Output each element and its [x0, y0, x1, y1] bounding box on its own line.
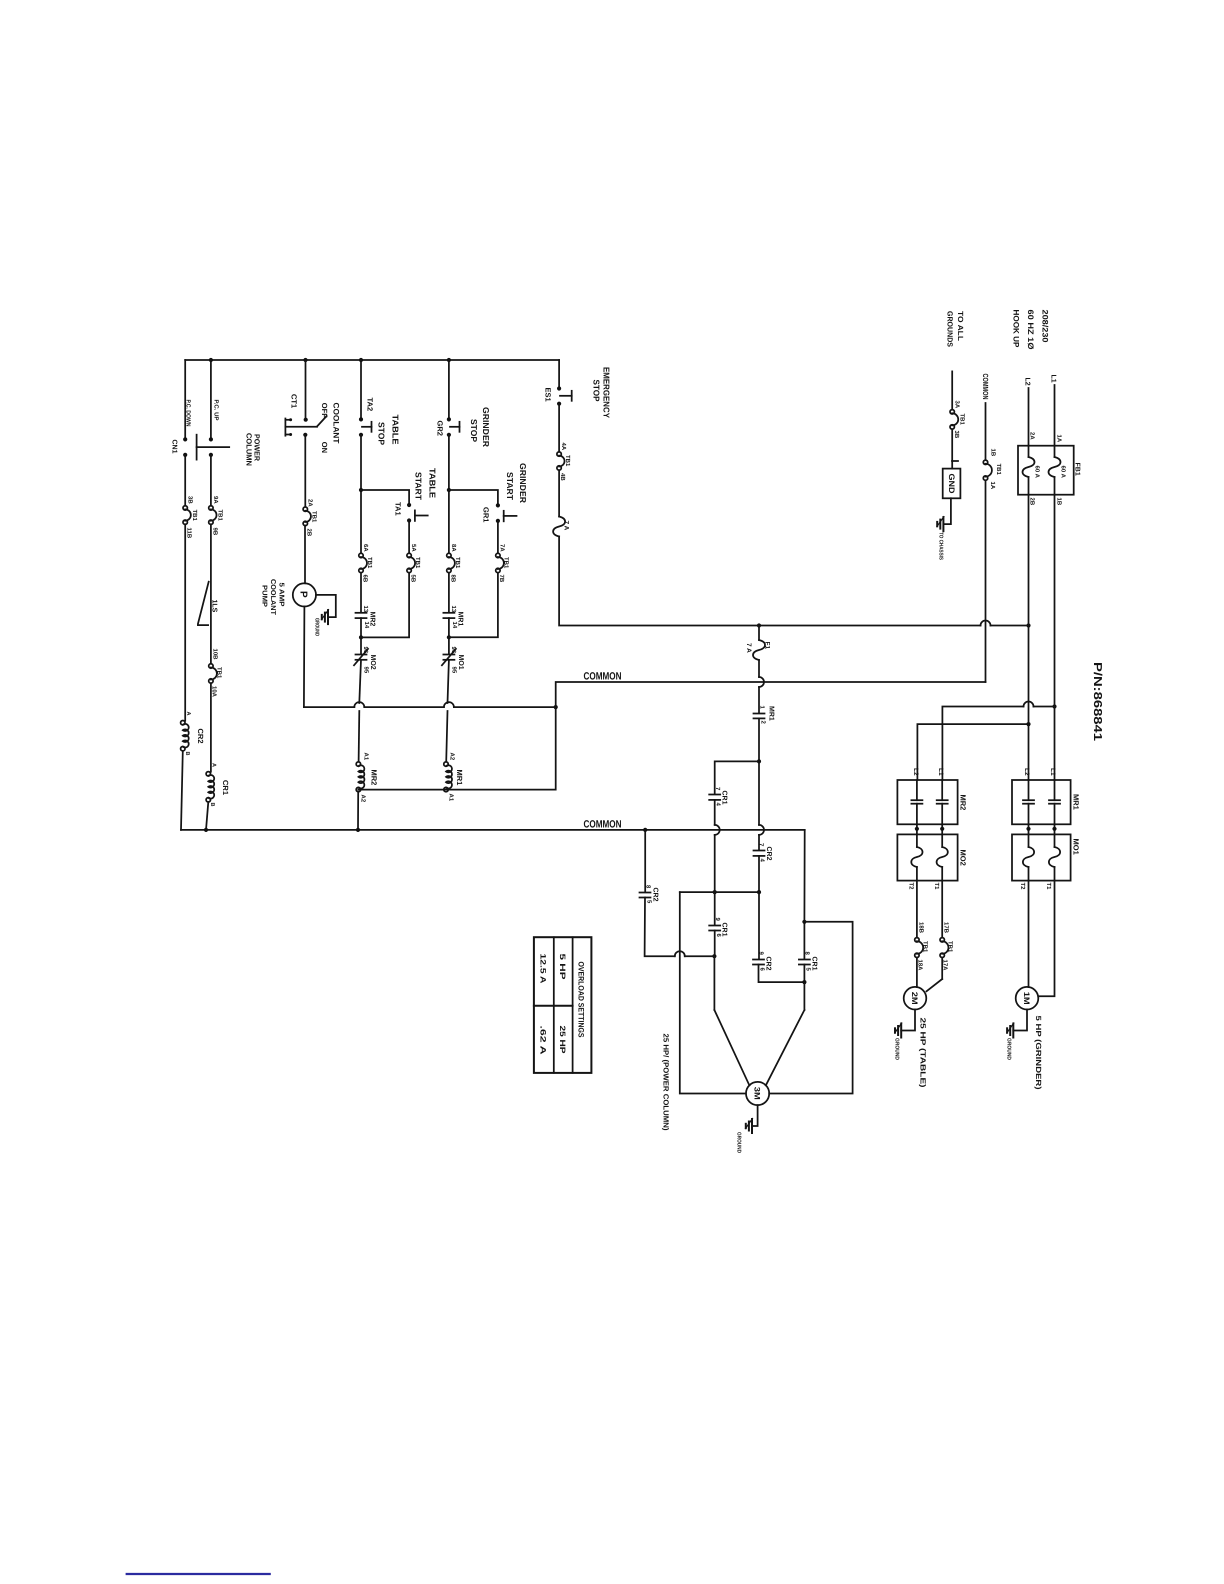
- svg-text:60 HZ 1Ø: 60 HZ 1Ø: [1026, 310, 1035, 350]
- svg-text:7B: 7B: [498, 575, 505, 583]
- svg-text:TB1: TB1: [311, 511, 318, 523]
- wire MR2-MO2 links: [915, 824, 945, 834]
- svg-text:TA2: TA2: [366, 398, 375, 412]
- svg-text:PUMP: PUMP: [261, 585, 268, 607]
- svg-text:17A: 17A: [942, 960, 949, 972]
- svg-text:17B: 17B: [943, 922, 950, 934]
- svg-text:CR1: CR1: [221, 780, 230, 795]
- text GRINDER START: [505, 463, 528, 503]
- wire 3M right loop: [769, 922, 852, 1094]
- contact MR2 13-14: [356, 606, 376, 629]
- svg-text:COOLANT: COOLANT: [269, 579, 276, 616]
- wire TA1 branch bottom: [361, 573, 409, 638]
- svg-text:1A: 1A: [989, 482, 996, 490]
- wire L1 to contactor: [1049, 495, 1057, 780]
- svg-text:CR1: CR1: [811, 957, 818, 971]
- svg-text:STOP: STOP: [469, 419, 479, 442]
- svg-text:2M: 2M: [910, 992, 919, 1005]
- terminal TB1 6A-6B: [359, 544, 373, 583]
- svg-text:B: B: [184, 752, 190, 756]
- terminal TB1 8A-8B: [447, 544, 461, 583]
- wire rung4 to MR2 contact: [360, 573, 362, 613]
- text TO CHASSIS: [938, 532, 944, 560]
- svg-text:12.5 A: 12.5 A: [539, 954, 548, 984]
- svg-text:COMMON: COMMON: [584, 819, 622, 831]
- svg-text:L2: L2: [912, 768, 919, 776]
- svg-text:TB1: TB1: [191, 510, 198, 522]
- svg-text:GROUNDS: GROUNDS: [946, 311, 955, 347]
- wire 2M T2: [916, 881, 918, 988]
- node 2A: [1029, 432, 1036, 440]
- contact MO1 95-96: [442, 647, 464, 674]
- svg-text:CT1: CT1: [290, 394, 299, 408]
- svg-text:STOP: STOP: [592, 380, 602, 402]
- svg-text:GRINDER: GRINDER: [481, 407, 491, 447]
- wire TA1 branch top: [361, 490, 409, 503]
- pushbutton GR1: [482, 503, 517, 523]
- svg-text:2: 2: [760, 721, 767, 725]
- contact CR1 7-4: [709, 787, 727, 807]
- svg-text:4A: 4A: [560, 443, 567, 451]
- wire common2: [181, 828, 805, 832]
- svg-text:13: 13: [362, 606, 369, 613]
- wire GR1 branch mid: [497, 521, 499, 554]
- wire line A mid: [714, 892, 716, 924]
- svg-text:HOOK UP: HOOK UP: [1012, 310, 1021, 349]
- contact MR1 1-2: [754, 706, 775, 725]
- svg-text:T2: T2: [908, 883, 915, 891]
- blue mark: [127, 1573, 270, 1575]
- svg-text:.62 A: .62 A: [539, 1026, 548, 1056]
- pushbutton TA1: [394, 502, 428, 523]
- text TABLE STOP: [377, 415, 401, 446]
- svg-text:L2: L2: [1024, 378, 1031, 386]
- svg-text:6: 6: [759, 968, 766, 972]
- contact CR2 7-4: [754, 843, 773, 863]
- wire line C: [680, 892, 746, 1093]
- svg-text:CN1: CN1: [171, 440, 178, 454]
- svg-text:COLUMN: COLUMN: [245, 433, 254, 466]
- wire TA1 branch mid: [408, 521, 410, 554]
- svg-text:TB1: TB1: [922, 941, 929, 953]
- svg-text:P/N:868841: P/N:868841: [1091, 662, 1103, 742]
- svg-text:L1: L1: [1049, 768, 1056, 776]
- svg-text:25 HP/ (POWER COLUMN): 25 HP/ (POWER COLUMN): [662, 1034, 671, 1132]
- node T2 MO1: [1019, 883, 1026, 891]
- motor 3M power column: [746, 1082, 769, 1105]
- svg-text:5: 5: [805, 968, 812, 972]
- text P.C. UP: [213, 400, 220, 421]
- wire top bus: [185, 358, 559, 362]
- svg-text:EMERGENCY: EMERGENCY: [602, 367, 612, 418]
- svg-text:A: A: [211, 763, 217, 767]
- wire rung1 upper: [184, 360, 186, 439]
- svg-text:6A: 6A: [362, 544, 369, 552]
- svg-text:2A: 2A: [307, 499, 314, 507]
- wire line A cross common2: [713, 800, 720, 894]
- svg-text:7A: 7A: [499, 544, 506, 552]
- svg-text:F1: F1: [764, 642, 771, 650]
- svg-text:5A: 5A: [410, 544, 417, 552]
- svg-text:GRINDER: GRINDER: [518, 463, 528, 503]
- svg-text:2A: 2A: [1029, 432, 1036, 440]
- wire L2 input: [1024, 378, 1031, 446]
- coil CR1: [206, 763, 230, 807]
- contact CR2 9-6: [753, 952, 772, 972]
- wire rung5 to MR1 coil: [446, 660, 449, 762]
- svg-text:TB1: TB1: [414, 557, 421, 569]
- fuse block FB1: [1018, 446, 1081, 495]
- svg-text:TO CHASSIS: TO CHASSIS: [938, 532, 944, 560]
- svg-text:GR1: GR1: [482, 507, 491, 522]
- contactor MR1: [1012, 780, 1081, 824]
- svg-text:GROUND: GROUND: [1006, 1038, 1012, 1060]
- wire line D lower: [802, 965, 806, 1011]
- svg-text:B: B: [209, 803, 215, 807]
- node T1 MO1: [1045, 883, 1052, 891]
- motor 2M: [904, 987, 927, 1010]
- svg-text:25 HP: 25 HP: [558, 1026, 567, 1054]
- svg-text:2B: 2B: [306, 529, 313, 537]
- svg-text:L2: L2: [1023, 768, 1030, 776]
- wire rung3 mid: [304, 435, 306, 507]
- coil MR1: [444, 753, 464, 802]
- svg-text:95: 95: [363, 667, 370, 674]
- terminal TB1 3A-3B: [950, 401, 966, 439]
- node 1B: [1056, 498, 1063, 506]
- terminal TB1 7A-7B: [496, 544, 510, 583]
- wire rung6 to fuse: [558, 470, 560, 516]
- terminal TB1 9A-9B: [209, 496, 224, 536]
- chassis ground: [937, 517, 944, 532]
- svg-text:TB1: TB1: [366, 557, 373, 569]
- wire line B cross common2: [759, 761, 764, 849]
- wire CR2 branch lower: [645, 898, 715, 957]
- svg-text:11B: 11B: [186, 528, 193, 539]
- svg-text:CR2: CR2: [196, 729, 205, 744]
- wire rung3 to pump: [304, 526, 306, 584]
- svg-text:5 HP: 5 HP: [558, 954, 567, 980]
- svg-text:L1: L1: [1050, 375, 1057, 383]
- svg-text:START: START: [505, 472, 515, 501]
- wire GR1 branch bottom: [449, 573, 498, 638]
- svg-text:MR1: MR1: [1072, 794, 1081, 810]
- svg-text:P.C. UP: P.C. UP: [213, 400, 220, 421]
- wire rung1 lower: [184, 524, 186, 720]
- svg-text:TB1: TB1: [959, 414, 966, 426]
- svg-text:MO1: MO1: [1072, 839, 1081, 855]
- wire 2M T1: [927, 881, 943, 992]
- wire 1M T1: [1038, 881, 1054, 997]
- wire rung5 MO1 segment: [447, 618, 451, 654]
- wire 3M ground: [752, 1105, 758, 1126]
- wire rung4 upper: [360, 360, 362, 419]
- svg-text:GR2: GR2: [436, 421, 445, 436]
- text 25 HP TABLE: [919, 1018, 928, 1089]
- svg-text:A1: A1: [363, 753, 370, 761]
- svg-text:TB1: TB1: [564, 455, 571, 467]
- svg-text:TABLE: TABLE: [391, 415, 401, 445]
- svg-text:ES1: ES1: [544, 388, 553, 402]
- svg-text:A2: A2: [360, 795, 367, 803]
- wire line D upper: [802, 830, 806, 959]
- svg-text:95: 95: [451, 667, 458, 674]
- svg-text:208/230: 208/230: [1041, 310, 1050, 344]
- contact MO2 95-96: [354, 647, 376, 674]
- wire line B mid: [757, 856, 761, 959]
- wire rung5 upper: [448, 360, 450, 419]
- svg-text:P.C. DOWN: P.C. DOWN: [185, 400, 192, 427]
- wire emergency line: [559, 537, 1028, 628]
- svg-text:START: START: [414, 472, 424, 501]
- wire common1 right: [554, 682, 986, 709]
- contact CR1 9-6: [709, 918, 727, 938]
- svg-text:6B: 6B: [362, 575, 369, 583]
- svg-text:COOLANT: COOLANT: [332, 403, 341, 444]
- terminal TB1 17B-17A: [940, 922, 954, 971]
- svg-text:TO ALL: TO ALL: [956, 311, 965, 341]
- svg-text:CR1: CR1: [721, 791, 728, 805]
- svg-text:14: 14: [363, 622, 370, 629]
- text POWER COLUMN: [245, 433, 262, 466]
- svg-text:A1: A1: [448, 794, 455, 802]
- terminal TB1 rung1: [183, 496, 198, 539]
- svg-text:5 HP (GRINDER): 5 HP (GRINDER): [1034, 1016, 1043, 1091]
- ground 3M: [736, 1119, 753, 1154]
- svg-text:MR1: MR1: [768, 706, 775, 721]
- wire rung2 mid: [210, 455, 212, 506]
- wire rung1 mid: [184, 455, 186, 506]
- ground pump: [314, 610, 329, 636]
- terminal TB1 4A-4B: [557, 443, 571, 482]
- svg-text:3B: 3B: [187, 496, 194, 504]
- overload MO2: [897, 834, 967, 880]
- wire COMMON input: [985, 403, 987, 682]
- svg-text:TB1: TB1: [454, 557, 461, 569]
- svg-text:1LS: 1LS: [211, 600, 218, 613]
- wire rung4 mid: [359, 435, 363, 554]
- coil MR2: [356, 753, 378, 803]
- wire C-A-B link: [680, 891, 759, 893]
- pushbutton CN1 up contact: [209, 437, 213, 457]
- svg-text:MO2: MO2: [369, 655, 376, 670]
- svg-text:3A: 3A: [954, 401, 961, 409]
- svg-text:2B: 2B: [1029, 498, 1036, 506]
- svg-text:1B: 1B: [1056, 498, 1063, 506]
- node 2B: [1029, 498, 1036, 506]
- svg-text:TB1: TB1: [503, 557, 510, 569]
- svg-text:CR2: CR2: [765, 847, 772, 861]
- wire MR2 feed L2: [912, 722, 1031, 780]
- svg-text:3M: 3M: [752, 1087, 761, 1100]
- wire line B upper: [757, 718, 761, 763]
- text 25 HP POWER COLUMN: [662, 1034, 671, 1132]
- table overload settings: [534, 937, 592, 1073]
- svg-text:TB1: TB1: [216, 667, 223, 679]
- text 5 AMP COOLANT PUMP: [261, 579, 285, 616]
- wire ground branch: [951, 371, 953, 468]
- wire GR1 branch top: [449, 490, 498, 503]
- svg-text:MR2: MR2: [959, 795, 968, 811]
- text part number: [1091, 662, 1103, 742]
- fuse 7A control: [553, 517, 569, 537]
- svg-text:TA1: TA1: [394, 502, 403, 516]
- node 1A: [1056, 435, 1063, 443]
- wire rung2 upper: [210, 360, 212, 439]
- svg-text:T1: T1: [1045, 883, 1052, 891]
- text GRINDER STOP: [469, 407, 491, 447]
- pushbutton ES1: [544, 386, 572, 405]
- svg-text:1B: 1B: [990, 449, 997, 457]
- svg-text:TB1: TB1: [947, 941, 954, 953]
- node T2 MO2: [908, 883, 915, 891]
- svg-text:18B: 18B: [918, 922, 925, 934]
- svg-text:60 A: 60 A: [1034, 466, 1041, 479]
- limit switch 1LS: [198, 582, 218, 625]
- svg-text:CR2: CR2: [765, 957, 772, 971]
- svg-text:14: 14: [451, 622, 458, 629]
- overload MO1: [1012, 834, 1081, 880]
- wire F1 to MR1 contact: [759, 660, 764, 713]
- text COOLANT OFF ON: [320, 403, 341, 454]
- text COMMON input: [981, 374, 990, 400]
- wire 1M T2: [1028, 881, 1030, 988]
- svg-text:GND: GND: [947, 474, 956, 494]
- svg-text:8A: 8A: [450, 544, 457, 552]
- svg-text:GROUND: GROUND: [314, 618, 320, 636]
- wire rung2 to coil: [210, 683, 212, 772]
- wire rung6 upper: [558, 360, 560, 389]
- svg-text:COMMON: COMMON: [584, 671, 622, 683]
- wire rung2 to common2: [206, 802, 208, 830]
- coolant pump P: [293, 583, 316, 606]
- wire pump to common1: [303, 607, 306, 708]
- svg-text:OVERLOAD SETTINGS: OVERLOAD SETTINGS: [577, 962, 586, 1038]
- ground 1M: [1006, 1023, 1014, 1060]
- pushbutton CN1 down contact: [183, 437, 187, 457]
- svg-text:96: 96: [450, 647, 457, 654]
- terminal TB1 5A-5B: [407, 544, 421, 583]
- svg-text:13: 13: [450, 606, 457, 613]
- svg-text:6: 6: [715, 934, 722, 938]
- text EMERGENCY STOP: [592, 367, 612, 418]
- wire rung4 MO2 segment: [359, 618, 363, 654]
- terminal TB1 1B-1A: [983, 449, 1002, 490]
- wire GND to chassis: [943, 498, 951, 524]
- svg-text:CR2: CR2: [652, 888, 659, 902]
- wire L1 input: [1050, 375, 1057, 446]
- wire MR1-MO1 links: [1026, 824, 1056, 834]
- svg-text:MR1: MR1: [455, 770, 464, 786]
- wire rung5 to MR1 contact: [448, 573, 450, 613]
- wire MR2 feed L1: [937, 702, 1055, 781]
- text P.C. DOWN: [185, 400, 192, 427]
- svg-text:MR2: MR2: [370, 770, 379, 786]
- wire MR coil return: [358, 707, 555, 790]
- svg-text:10B: 10B: [212, 649, 219, 661]
- text 5 HP GRINDER: [1034, 1016, 1043, 1091]
- text COMMON 1: [584, 671, 622, 683]
- svg-text:4B: 4B: [559, 473, 566, 481]
- svg-text:5 AMP: 5 AMP: [278, 583, 285, 607]
- svg-text:T1: T1: [933, 883, 940, 891]
- wire rung6 mid: [558, 404, 560, 452]
- svg-text:5: 5: [646, 900, 653, 904]
- svg-text:T2: T2: [1019, 883, 1026, 891]
- text 208/230 60HZ hookup: [1012, 310, 1050, 350]
- svg-text:5B: 5B: [410, 575, 417, 583]
- svg-text:FB1: FB1: [1074, 463, 1081, 476]
- svg-text:STOP: STOP: [377, 422, 387, 445]
- ground lug GND: [943, 461, 961, 498]
- svg-text:7 A: 7 A: [563, 521, 570, 531]
- wire rung4 to MR2 coil: [359, 660, 361, 762]
- wire 2M ground: [901, 1010, 915, 1031]
- svg-text:TABLE: TABLE: [428, 468, 438, 498]
- svg-text:TB1: TB1: [217, 510, 224, 522]
- toggle switch CT1: [285, 394, 326, 437]
- svg-text:25 HP (TABLE): 25 HP (TABLE): [919, 1018, 928, 1089]
- wire 1M ground: [1013, 1010, 1027, 1031]
- text TABLE START: [414, 468, 438, 501]
- svg-text:OFF: OFF: [320, 403, 329, 418]
- svg-text:1A: 1A: [1056, 435, 1063, 443]
- text COMMON 2: [584, 819, 622, 831]
- svg-text:3B: 3B: [953, 431, 960, 439]
- wire 3M right diagonal: [766, 1010, 805, 1085]
- wire CR2 branch upper: [644, 830, 646, 892]
- wire rung5 mid: [447, 435, 451, 554]
- svg-text:8B: 8B: [450, 575, 457, 583]
- pushbutton TA2: [359, 398, 375, 437]
- svg-text:60 A: 60 A: [1060, 466, 1067, 479]
- svg-text:TB1: TB1: [995, 464, 1002, 476]
- contact MR1 13-14: [443, 606, 463, 629]
- svg-text:GROUND: GROUND: [736, 1132, 742, 1153]
- svg-text:A: A: [185, 712, 191, 716]
- svg-text:COMMON: COMMON: [981, 374, 990, 400]
- svg-text:96: 96: [362, 647, 369, 654]
- coil CR2: [181, 712, 205, 756]
- svg-text:MO1: MO1: [457, 655, 464, 670]
- wire common1 left: [304, 702, 556, 707]
- ground 2M: [894, 1023, 902, 1060]
- pushbutton linkage: [197, 435, 230, 460]
- contactor MR2: [897, 780, 967, 824]
- wire line A top: [715, 761, 759, 793]
- svg-text:P: P: [298, 591, 309, 598]
- wire 3M left diagonal: [714, 1010, 749, 1085]
- svg-text:A2: A2: [449, 753, 456, 761]
- wire MR2 coil to common2: [357, 792, 359, 830]
- svg-text:9A: 9A: [212, 496, 219, 504]
- wire rung1 to common2: [181, 751, 183, 830]
- terminal TB1 10B-10A: [209, 649, 223, 698]
- terminal TB1 18B-18A: [915, 922, 929, 971]
- svg-text:18A: 18A: [917, 960, 924, 972]
- pushbutton GR2: [436, 417, 460, 437]
- contact CR2 8-5: [640, 885, 659, 904]
- wire line B to D: [759, 965, 805, 983]
- label CN1: [171, 440, 178, 454]
- node T1 MO2: [933, 883, 940, 891]
- svg-text:GROUND: GROUND: [894, 1038, 900, 1060]
- motor 1M: [1016, 987, 1039, 1010]
- terminal TB1 2A-2B: [303, 499, 317, 537]
- wire rung3 upper: [305, 360, 307, 418]
- wire L2 to contactor: [1023, 495, 1031, 780]
- svg-text:L1: L1: [937, 768, 944, 776]
